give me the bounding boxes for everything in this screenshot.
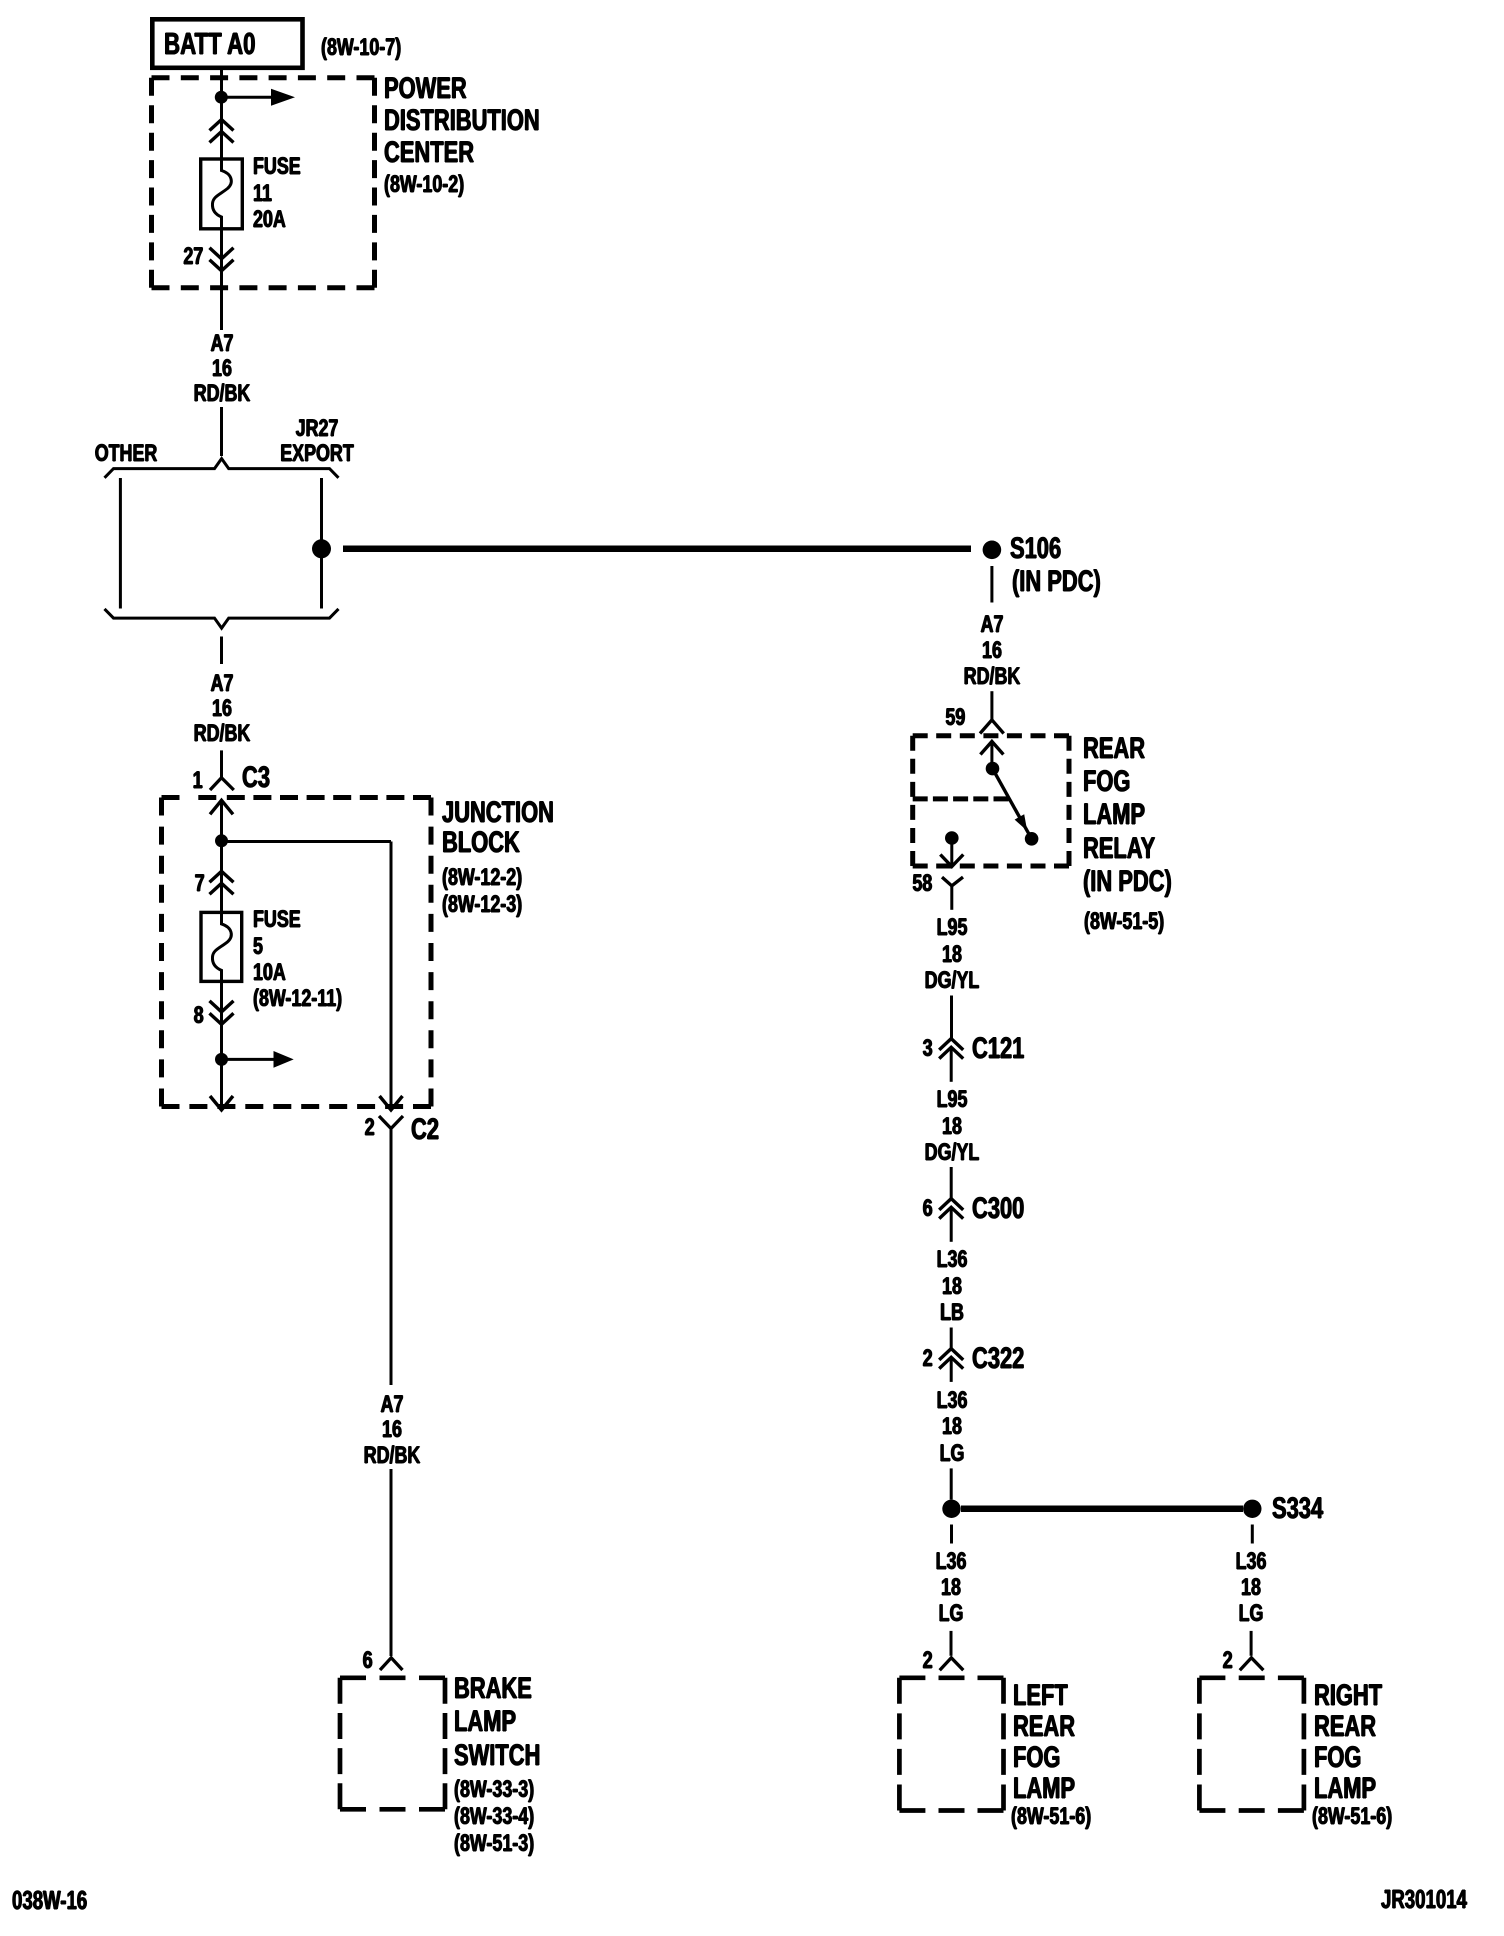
pin 8 double chevron <box>210 1001 234 1024</box>
wire label L36 18 LG (above splice) <box>936 1388 967 1467</box>
double chevron connector in PDC (fuse 11 feed) <box>210 120 234 143</box>
wire A7 from PDC down to split <box>220 229 223 456</box>
splice S106 node <box>983 541 1002 560</box>
reference (8W-10-7) <box>321 35 401 61</box>
splice S334 node <box>1243 1500 1261 1518</box>
wire inside junction block to fuse 5 <box>220 801 223 912</box>
wire above relay pin 59 <box>990 691 993 720</box>
wire splice line to S334 <box>961 1506 1243 1513</box>
branch wire to pin 2 C2 <box>222 842 392 1110</box>
wire label L36 18 LG (right lamp) <box>1236 1549 1267 1628</box>
fuse 11 20A symbol <box>201 159 243 229</box>
wire from BATT A0 through PDC to fuse 11 <box>220 68 223 160</box>
right rear fog lamp dashed box <box>1199 1678 1304 1811</box>
pin number 27 <box>183 244 203 270</box>
relay pin 59 male chevron <box>980 742 1003 755</box>
junction node in PDC <box>215 91 228 104</box>
references (8W-12-2) (8W-12-3) <box>442 864 522 918</box>
splice node on EXPORT branch <box>312 539 331 558</box>
pin 27 double chevron (PDC output) <box>210 248 234 271</box>
splice label (IN PDC) <box>1012 566 1101 598</box>
pin 7 double chevron <box>210 871 234 894</box>
relay pin 58 male chevron <box>940 855 963 867</box>
pin number 1 <box>192 768 202 794</box>
label JUNCTION BLOCK <box>442 798 554 859</box>
pin number 7 <box>194 871 204 897</box>
brake lamp switch pin 6 connector <box>380 1658 403 1670</box>
junction block exit chevron pin 2 <box>380 1096 403 1110</box>
reference (8W-51-6) left <box>1011 1804 1091 1830</box>
relay internal dashed divider <box>913 796 1009 801</box>
right lamp pin 2 connector <box>1240 1658 1264 1670</box>
power distribution center dashed box <box>152 78 375 288</box>
connector C300 pin 6 double chevron <box>939 1199 963 1219</box>
left rear fog lamp dashed box <box>899 1678 1003 1811</box>
reference (8W-10-2) <box>384 172 464 198</box>
label RIGHT REAR FOG LAMP <box>1314 1681 1382 1805</box>
splice label S106 <box>1010 533 1061 565</box>
wire OTHER branch <box>119 478 122 609</box>
branch label OTHER <box>95 441 158 467</box>
bottom brace merging branches <box>105 609 339 628</box>
wire L95 to C121 <box>950 996 953 1039</box>
pin number 2 (right lamp) <box>1223 1648 1233 1674</box>
arrow to other PDC circuits <box>221 89 295 106</box>
wire below fuse 5 <box>220 981 223 1109</box>
junction block exit chevron left <box>210 1096 233 1110</box>
wire label L95 18 DG/YL (upper) <box>924 915 979 994</box>
connector C322 pin 2 double chevron <box>939 1349 963 1369</box>
junction block dashed box <box>162 798 432 1107</box>
connector label C121 <box>972 1033 1024 1065</box>
connector label C3 <box>242 762 270 794</box>
pin number 59 <box>946 705 966 731</box>
wire JR27 EXPORT branch <box>320 478 323 609</box>
connector C2 female half pin 2 <box>379 1116 403 1146</box>
wire label L36 18 LB <box>936 1247 967 1326</box>
connector label C2 <box>411 1114 439 1146</box>
drawing number JR301014 <box>1381 1887 1467 1914</box>
label FUSE 11 20A <box>253 154 301 233</box>
pin number 2 (C2) <box>365 1115 375 1141</box>
connector C3 male chevron <box>210 800 233 814</box>
pin number 6 <box>363 1648 373 1674</box>
relay pin 59 female half <box>980 720 1004 734</box>
label BATT A0 <box>164 28 256 61</box>
wire A7 to brake lamp switch <box>390 1146 393 1656</box>
wire label L95 18 DG/YL (lower) <box>924 1087 979 1166</box>
relay pin 58 female half <box>942 877 963 910</box>
relay switch arm with arrow <box>993 769 1032 839</box>
relay output terminal node <box>945 831 959 845</box>
relay common terminal node <box>986 762 1000 776</box>
pin number 3 <box>923 1036 933 1062</box>
wire A7 below brace <box>220 637 223 665</box>
connector label C322 <box>972 1343 1024 1375</box>
wire label A7 16 RD/BK (brake) <box>363 1392 420 1468</box>
junction node below fuse 5 <box>215 1053 228 1066</box>
arrow to other junction block circuits <box>222 1051 294 1068</box>
wire splice line to S106 <box>343 546 971 553</box>
label REAR FOG LAMP RELAY (IN PDC) <box>1083 732 1172 897</box>
reference (8W-51-5) <box>1084 909 1164 935</box>
battery feed terminal box BATT A0 <box>152 19 302 68</box>
junction node in junction block <box>215 834 228 847</box>
pin number 2 (C322) <box>923 1346 933 1372</box>
label BRAKE LAMP SWITCH <box>454 1672 540 1773</box>
wire below S106 <box>990 566 993 603</box>
wire L95 below C121 <box>950 1047 953 1198</box>
top brace splitting OTHER / JR27 EXPORT <box>105 459 339 478</box>
wire label A7 16 RD/BK (mid) <box>194 672 251 747</box>
wire L36 below C300 <box>950 1207 953 1348</box>
connector C121 pin 3 double chevron <box>939 1039 963 1059</box>
wire label A7 16 RD/BK (S106) <box>964 612 1021 690</box>
wire label A7 16 RD/BK (top) <box>194 331 251 406</box>
left lamp pin 2 connector <box>940 1658 964 1670</box>
relay output wire <box>950 838 953 866</box>
connector label C300 <box>972 1193 1024 1225</box>
pin number 58 <box>913 871 933 897</box>
rear fog lamp relay dashed box <box>913 736 1069 866</box>
relay switch terminal node <box>1025 832 1039 846</box>
wire L36 to right rear fog lamp <box>1251 1525 1252 1656</box>
label LEFT REAR FOG LAMP <box>1013 1681 1075 1805</box>
splice node left of S334 <box>942 1500 960 1518</box>
pin number 6 (C300) <box>923 1196 933 1222</box>
reference (8W-51-6) right <box>1312 1804 1392 1830</box>
fuse 5 10A symbol <box>201 912 242 981</box>
branch label JR27 EXPORT <box>280 417 354 467</box>
pin number 8 <box>193 1003 203 1029</box>
wire label L36 18 LG (left lamp) <box>936 1549 967 1628</box>
connector C3 female half pin 1 <box>210 750 234 790</box>
label POWER DISTRIBUTION CENTER <box>384 73 540 169</box>
relay coil wire <box>990 742 993 769</box>
wire L36 to left rear fog lamp <box>950 1525 954 1656</box>
page code 038W-16 <box>12 1888 87 1915</box>
splice label S334 <box>1272 1493 1323 1525</box>
references (8W-33-3) (8W-33-4) (8W-51-3) <box>454 1777 534 1857</box>
label FUSE 5 10A (8W-12-11) <box>253 907 342 1012</box>
pin number 2 (left lamp) <box>923 1648 933 1674</box>
brake lamp switch dashed box <box>340 1678 445 1810</box>
wire L36 below C322 <box>950 1357 953 1499</box>
